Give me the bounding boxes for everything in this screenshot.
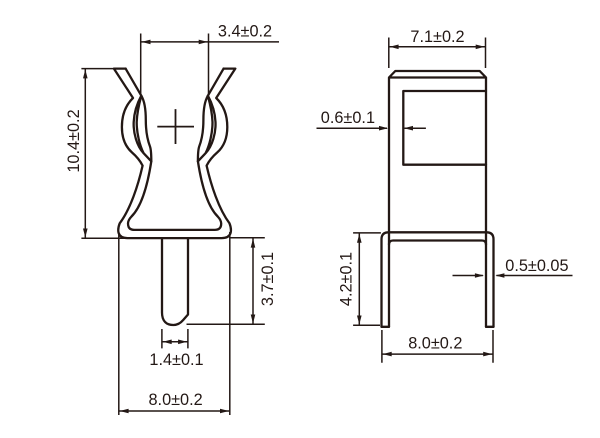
arrowhead 0.6 right-pointing xyxy=(379,126,388,131)
left jaw strip (lens pair) xyxy=(134,96,152,162)
svg-text:3.4±0.2: 3.4±0.2 xyxy=(218,23,272,41)
arrowhead 8.0R left xyxy=(383,352,392,357)
arrowhead 4.2 bottom xyxy=(357,316,362,325)
dim 3.7 extension lines xyxy=(187,238,265,324)
dim 8.0 right dimension line xyxy=(382,353,493,355)
svg-text:4.2±0.1: 4.2±0.1 xyxy=(338,252,356,306)
dim 8.0 left dimension line xyxy=(119,410,230,412)
side view: body top with chamfers xyxy=(389,71,486,327)
dim 3.4 dimension line xyxy=(141,41,279,43)
arrowhead 7.1 right xyxy=(476,45,485,50)
arrowhead 3.4 left xyxy=(142,40,151,45)
dim 8.0 left extension lines xyxy=(119,232,230,415)
dim 7.1 extension lines xyxy=(389,38,486,69)
arrowhead 3.4 right xyxy=(199,40,208,45)
svg-text:1.4±0.1: 1.4±0.1 xyxy=(149,351,203,369)
dim 3.4 extension lines xyxy=(141,34,209,95)
arrowhead 10.4 bottom xyxy=(83,229,88,238)
arrowhead 8.0L right xyxy=(220,409,229,414)
dim 1.4 dimension line xyxy=(162,341,188,343)
arrowhead 4.2 top xyxy=(357,234,362,243)
svg-text:10.4±0.2: 10.4±0.2 xyxy=(65,109,83,172)
arrowhead 3.7 top xyxy=(251,239,256,248)
dim 1.4 extension lines xyxy=(162,329,188,348)
dim 0.5 leader lines xyxy=(453,275,573,277)
fuse clip front view: outer silhouette xyxy=(114,69,235,239)
arrowhead 0.5 left-pointing xyxy=(495,273,504,278)
dim 3.7 dimension line xyxy=(252,238,254,324)
side view: window xyxy=(403,91,486,165)
arrowhead 8.0L left xyxy=(120,409,129,414)
side view: staple inner top xyxy=(389,241,486,245)
arrowhead 7.1 left xyxy=(390,45,399,50)
svg-text:8.0±0.2: 8.0±0.2 xyxy=(408,335,462,353)
side view: staple outer contour xyxy=(382,232,494,326)
dim 7.1 dimension line xyxy=(389,46,486,48)
centre cross mark xyxy=(157,109,194,144)
dim 8.0 right extension lines xyxy=(382,330,493,363)
svg-text:8.0±0.2: 8.0±0.2 xyxy=(148,391,202,409)
dim 10.4 dimension line xyxy=(84,69,86,239)
svg-text:3.7±0.1: 3.7±0.1 xyxy=(259,252,277,306)
svg-text:7.1±0.2: 7.1±0.2 xyxy=(410,28,464,46)
dim 10.4 extension lines xyxy=(81,69,127,239)
right jaw strip (lens pair) xyxy=(198,96,216,162)
arrowhead 1.4 right xyxy=(178,340,187,345)
arrowhead 3.7 bottom xyxy=(251,315,256,324)
arrowhead 10.4 top xyxy=(83,69,88,78)
dim 4.2 extension lines xyxy=(353,233,381,325)
arrowhead 8.0R right xyxy=(483,352,492,357)
svg-text:0.6±0.1: 0.6±0.1 xyxy=(321,109,375,127)
side view: leg bottom ends xyxy=(382,326,494,328)
svg-text:0.5±0.05: 0.5±0.05 xyxy=(505,257,568,275)
dim 0.6 leader lines xyxy=(317,127,426,129)
fuse clip front view: inner contour xyxy=(126,69,224,230)
arrowhead 1.4 left xyxy=(163,340,172,345)
dim 4.2 dimension line xyxy=(358,233,360,325)
leg (solder pin) xyxy=(162,238,188,325)
arrowhead 0.5 right-pointing xyxy=(475,273,484,278)
arrowhead 0.6 left-pointing xyxy=(404,126,413,131)
